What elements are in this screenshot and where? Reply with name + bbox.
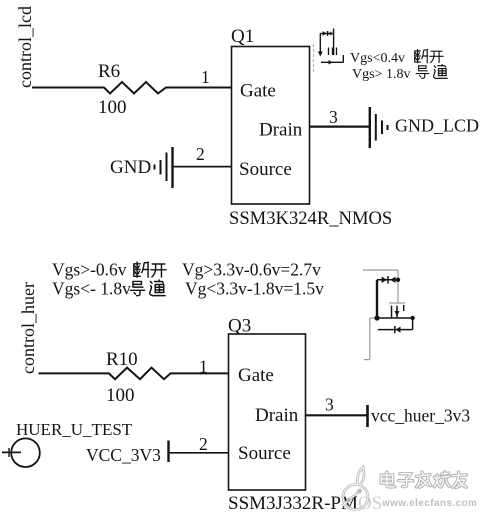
svg-text:2: 2 bbox=[199, 434, 208, 454]
svg-text:1: 1 bbox=[201, 67, 210, 87]
svg-text:Source: Source bbox=[239, 159, 292, 180]
svg-text:Q1: Q1 bbox=[231, 26, 254, 47]
svg-text:GND: GND bbox=[110, 157, 151, 178]
svg-text:OS: OS bbox=[358, 493, 382, 514]
svg-text:GND_LCD: GND_LCD bbox=[395, 116, 479, 136]
svg-text:Gate: Gate bbox=[238, 365, 274, 386]
svg-text:100: 100 bbox=[98, 97, 127, 118]
svg-text:www.elecfans.com: www.elecfans.com bbox=[381, 498, 477, 509]
svg-text:VCC_3V3: VCC_3V3 bbox=[86, 445, 161, 465]
svg-text:1: 1 bbox=[199, 357, 208, 377]
svg-text:Drain: Drain bbox=[255, 405, 299, 426]
svg-text:Vgs>-0.6v: Vgs>-0.6v bbox=[52, 260, 127, 280]
svg-text:SSM3K324R_NMOS: SSM3K324R_NMOS bbox=[229, 208, 392, 229]
svg-text:2: 2 bbox=[196, 144, 205, 164]
svg-text:Vgs> 1.8v: Vgs> 1.8v bbox=[352, 67, 410, 82]
svg-text:3: 3 bbox=[325, 395, 334, 415]
svg-text:100: 100 bbox=[106, 385, 135, 406]
svg-text:control_huer: control_huer bbox=[18, 282, 38, 374]
svg-text:Vg>3.3v-0.6v=2.7v: Vg>3.3v-0.6v=2.7v bbox=[182, 260, 321, 280]
svg-text:SSM3J332R-PM: SSM3J332R-PM bbox=[228, 493, 358, 514]
svg-text:R10: R10 bbox=[106, 349, 138, 370]
svg-text:Gate: Gate bbox=[240, 81, 276, 102]
svg-text:HUER_U_TEST: HUER_U_TEST bbox=[16, 420, 133, 439]
svg-text:vcc_huer_3v3: vcc_huer_3v3 bbox=[371, 406, 470, 426]
svg-text:Vgs<0.4v: Vgs<0.4v bbox=[350, 51, 405, 66]
svg-text:3: 3 bbox=[329, 107, 338, 127]
svg-text:Q3: Q3 bbox=[228, 316, 251, 337]
svg-text:Drain: Drain bbox=[259, 120, 303, 141]
svg-text:Vgs<- 1.8v: Vgs<- 1.8v bbox=[52, 279, 131, 299]
svg-text:R6: R6 bbox=[98, 61, 120, 82]
svg-text:Vg<3.3v-1.8v=1.5v: Vg<3.3v-1.8v=1.5v bbox=[185, 279, 324, 299]
svg-text:Source: Source bbox=[238, 443, 291, 464]
svg-text:control_lcd: control_lcd bbox=[15, 6, 35, 88]
